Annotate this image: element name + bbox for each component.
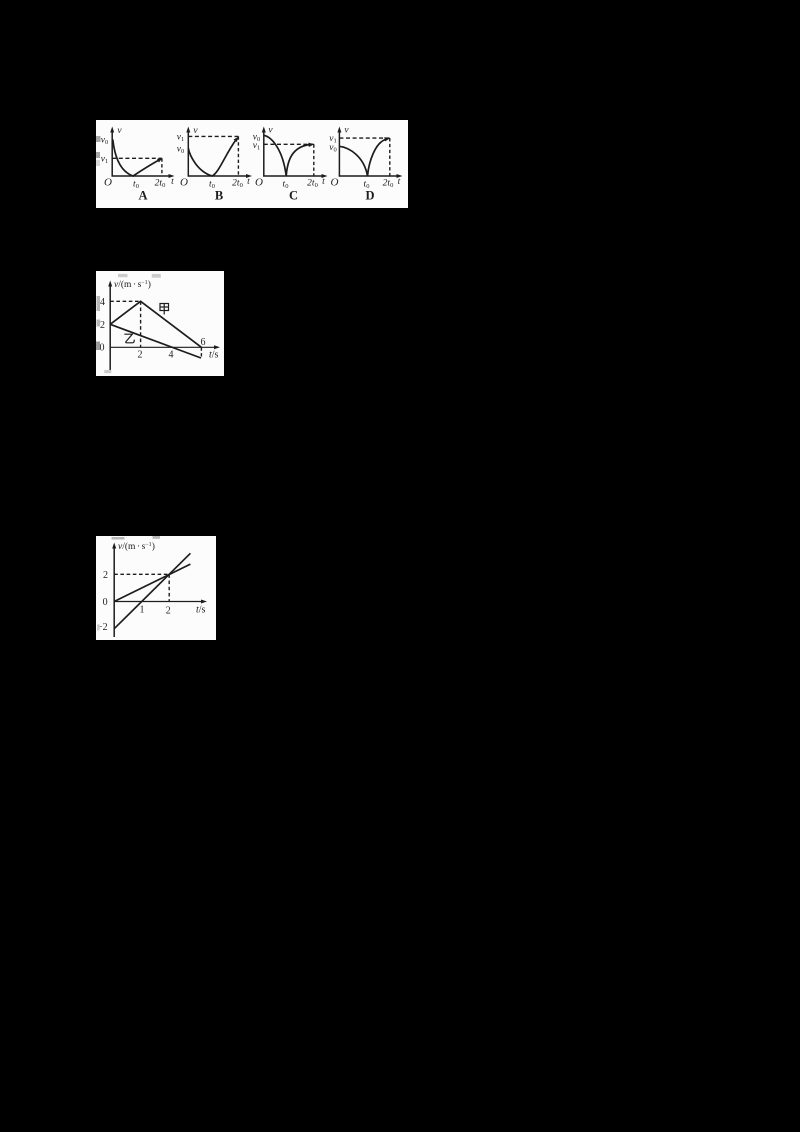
- graph C curve: [264, 135, 310, 176]
- graph C y-axis: [263, 130, 265, 177]
- graph A curve: [113, 140, 159, 177]
- graph A x arrow: [169, 174, 175, 178]
- svg-text:t/s: t/s: [196, 605, 206, 616]
- svg-text:0: 0: [103, 597, 108, 608]
- dashed t=2 vertical: [140, 301, 142, 347]
- svg-text:4: 4: [169, 350, 174, 361]
- svg-text:2t0: 2t0: [307, 179, 318, 190]
- graph B dashed v1 level: [188, 135, 238, 137]
- graph D x arrow: [397, 174, 403, 178]
- line slope 2: [114, 553, 190, 628]
- svg-text:2: 2: [166, 606, 171, 617]
- dashed v=2 level: [114, 573, 169, 575]
- dashed t=6 vertical: [200, 347, 202, 358]
- scan smudges: [97, 536, 160, 630]
- graph D y-axis: [338, 130, 340, 177]
- svg-text:O: O: [255, 177, 263, 189]
- svg-text:t: t: [398, 177, 401, 187]
- svg-text:4: 4: [100, 297, 105, 308]
- graph B y arrow: [186, 127, 190, 133]
- svg-text:v0: v0: [101, 136, 108, 147]
- svg-text:v0: v0: [177, 145, 184, 156]
- y-axis: [113, 546, 115, 637]
- x-axis arrow: [201, 600, 207, 604]
- svg-text:2: 2: [138, 350, 143, 361]
- graph D x-axis: [339, 175, 399, 177]
- graph B curve: [188, 140, 236, 176]
- scan smudges: [96, 274, 161, 373]
- graph C x-axis: [263, 175, 324, 177]
- svg-text:2: 2: [103, 570, 108, 581]
- yi character: [124, 334, 134, 343]
- figure block 3: two crossing lines v-t graph: [96, 536, 216, 640]
- svg-text:O: O: [331, 177, 339, 189]
- svg-text:A: A: [138, 189, 147, 203]
- svg-text:O: O: [180, 177, 188, 189]
- graph D dashed v1 level: [339, 137, 389, 139]
- x-axis: [110, 346, 217, 348]
- svg-text:t: t: [247, 177, 250, 187]
- y-axis: [109, 284, 111, 372]
- svg-text:1: 1: [140, 605, 145, 616]
- graph B x arrow: [246, 174, 252, 178]
- svg-text:2t0: 2t0: [155, 179, 166, 190]
- figure block 2: jia/yi v-t graph: [96, 271, 224, 376]
- svg-text:2t0: 2t0: [232, 179, 243, 190]
- svg-text:6: 6: [201, 337, 206, 348]
- graph C x arrow: [322, 174, 328, 178]
- x-axis arrow: [214, 345, 220, 349]
- svg-text:0: 0: [100, 343, 105, 354]
- graph B dashed 2t0 vertical: [237, 136, 239, 176]
- figure block 1: four v-t option graphs A B C D: [96, 120, 408, 208]
- jia character: [160, 304, 169, 315]
- graph B curve arrow: [234, 137, 239, 142]
- svg-text:v: v: [193, 126, 198, 136]
- svg-text:2t0: 2t0: [383, 179, 394, 190]
- y-axis arrow: [112, 543, 116, 549]
- svg-text:t/s: t/s: [209, 350, 219, 361]
- scan smudges left edge: [96, 136, 101, 166]
- graph C dashed 2t0 vertical: [313, 144, 315, 176]
- graph B x-axis: [188, 175, 249, 177]
- line slope 1: [114, 564, 190, 601]
- graph A curve arrow: [157, 158, 163, 162]
- svg-text:v: v: [117, 126, 122, 136]
- svg-text:C: C: [289, 189, 298, 203]
- jia line: [110, 301, 201, 347]
- svg-text:2: 2: [100, 320, 105, 331]
- graph A x-axis: [112, 175, 171, 177]
- graph D y arrow: [337, 127, 341, 133]
- svg-text:v1: v1: [177, 133, 184, 144]
- yi line: [110, 324, 201, 358]
- svg-text:v/(m·s−1): v/(m·s−1): [118, 541, 155, 552]
- svg-text:v/(m·s−1): v/(m·s−1): [114, 279, 151, 290]
- dashed v=4 level: [110, 300, 140, 302]
- svg-text:v: v: [344, 126, 349, 136]
- x-axis: [114, 601, 204, 603]
- graph D curve arrow: [384, 137, 390, 141]
- graph C y arrow: [262, 127, 266, 133]
- svg-text:t0: t0: [283, 180, 289, 191]
- graph A dashed v1 level: [112, 157, 162, 159]
- graph A y arrow: [110, 127, 114, 133]
- svg-text:D: D: [365, 189, 374, 203]
- graph D dashed 2t0 vertical: [389, 138, 391, 176]
- graph D curve: [339, 139, 386, 176]
- svg-text:v: v: [268, 126, 273, 136]
- dashed t=2 vertical: [168, 574, 170, 601]
- svg-text:t: t: [171, 177, 174, 187]
- svg-text:O: O: [104, 177, 112, 189]
- graph C dashed v1 level: [264, 143, 314, 145]
- graph A y-axis: [111, 130, 113, 177]
- graph B y-axis: [187, 130, 189, 177]
- svg-text:v0: v0: [329, 143, 336, 154]
- svg-text:B: B: [215, 189, 223, 203]
- svg-text:t: t: [322, 177, 325, 187]
- svg-text:v1: v1: [101, 155, 108, 166]
- y-axis arrow: [108, 281, 112, 287]
- graph A dashed 2t0 vertical: [161, 158, 163, 176]
- graph C curve arrow: [308, 143, 314, 147]
